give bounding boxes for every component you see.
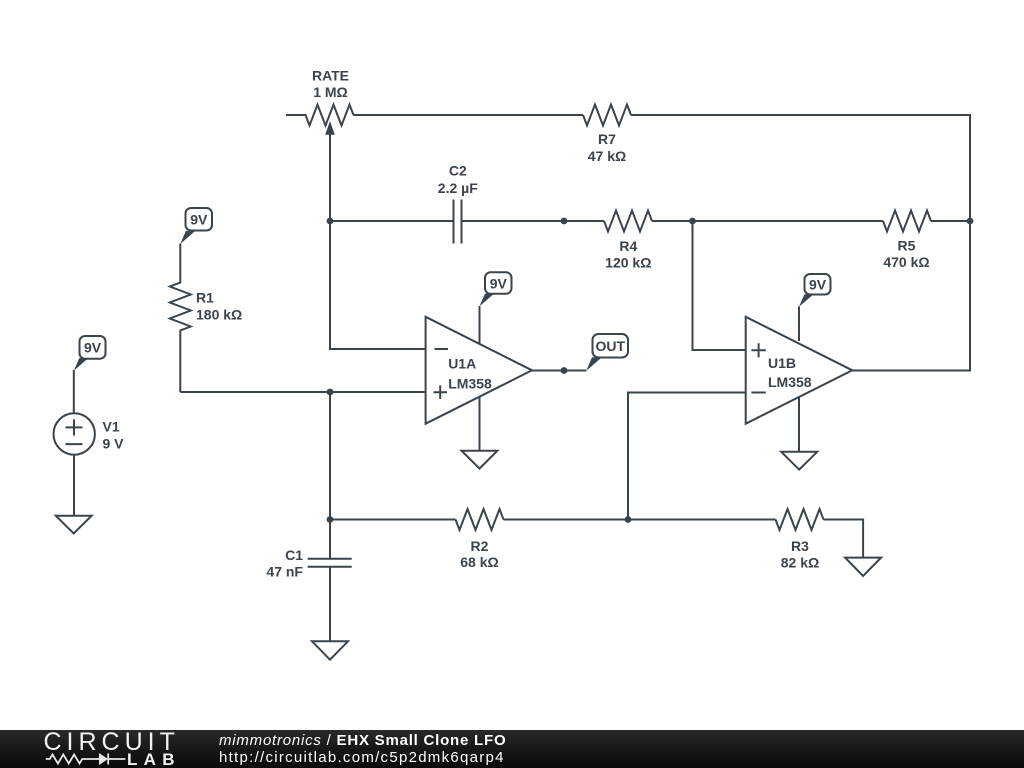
svg-text:R1: R1 (196, 290, 214, 306)
9V net flag V1 top (74, 336, 106, 371)
junction dot output node (561, 218, 568, 225)
svg-text:LM358: LM358 (768, 374, 812, 390)
svg-text:LAB: LAB (127, 750, 181, 768)
resistor R7 (583, 105, 631, 126)
wire C2 to R4 (462, 220, 605, 222)
junction dot U1A output (561, 367, 568, 374)
junction dot right rail (967, 218, 974, 225)
wire U1A output (532, 370, 586, 372)
svg-text:82 kΩ: 82 kΩ (781, 555, 819, 571)
svg-text:U1A: U1A (448, 356, 476, 372)
junction dot node B (689, 218, 696, 225)
net flag OUT (586, 334, 628, 371)
svg-text:9V: 9V (190, 212, 208, 228)
svg-text:C2: C2 (449, 163, 467, 179)
wire R5 to right rail (931, 220, 970, 222)
svg-text:V1: V1 (103, 419, 120, 435)
wire top rail right (631, 115, 970, 221)
wire R4 to node B (652, 220, 693, 222)
svg-text:120 kΩ: 120 kΩ (605, 255, 651, 271)
ground U1A (462, 397, 498, 469)
svg-text:U1B: U1B (768, 355, 796, 371)
wire V1 bottom (73, 455, 75, 516)
svg-text:R4: R4 (619, 238, 637, 254)
junction dot bottom mid node (625, 516, 632, 523)
wire bottom rail left (330, 519, 456, 521)
wire mid node to R3 (628, 519, 776, 521)
wire U1B minus input (628, 393, 746, 520)
potentiometer RATE (286, 105, 354, 135)
svg-text:9V: 9V (809, 277, 827, 293)
svg-text:9V: 9V (84, 340, 102, 356)
wire node B to U1B plus input (693, 221, 746, 350)
svg-text:R5: R5 (898, 238, 916, 254)
resistor R1 (170, 244, 191, 393)
junction dot plus input node (327, 389, 334, 396)
op-amp U1B (746, 317, 853, 424)
svg-text:1 MΩ: 1 MΩ (313, 84, 348, 100)
footer title text (219, 732, 506, 749)
wire node B to R5 (693, 220, 884, 222)
svg-text:R2: R2 (471, 538, 489, 554)
ground U1B (781, 397, 817, 470)
resistor R2 (456, 509, 504, 530)
wire wiper to U1A minus input (330, 134, 426, 349)
svg-text:C1: C1 (285, 547, 303, 563)
footer bar (0, 730, 1024, 768)
wire node A to C2 (330, 220, 454, 222)
svg-text:9 V: 9 V (103, 436, 125, 452)
wire R1 to U1A plus input (180, 391, 425, 393)
ground C1 (312, 641, 348, 659)
svg-text:LM358: LM358 (448, 376, 492, 392)
capacitor C1 (308, 520, 352, 642)
wire plus node down to bottom rail (329, 392, 331, 520)
resistor R3 (776, 509, 824, 530)
9V net flag U1A supply (480, 272, 512, 344)
svg-text:180 kΩ: 180 kΩ (196, 307, 242, 323)
svg-text:68 kΩ: 68 kΩ (460, 554, 498, 570)
resistor R4 (604, 211, 652, 232)
op-amp U1A (426, 317, 532, 424)
wire top rail left (354, 114, 584, 116)
svg-text:RATE: RATE (312, 68, 349, 84)
CircuitLab logo (0, 730, 215, 768)
svg-text:R7: R7 (598, 131, 616, 147)
svg-text:2.2 µF: 2.2 µF (438, 180, 478, 196)
svg-text:R3: R3 (791, 538, 809, 554)
capacitor C2 (454, 200, 462, 244)
9V net flag R1 top (180, 208, 212, 244)
junction dot node A (327, 218, 334, 225)
resistor R5 (883, 211, 931, 232)
svg-text:470 kΩ: 470 kΩ (883, 254, 929, 270)
voltage source V1 (53, 413, 94, 454)
ground R3 (845, 558, 881, 576)
wire R3 to ground (824, 520, 864, 558)
ground V1 (56, 516, 92, 534)
wire U1B output to right rail (852, 221, 970, 371)
wire R2 to mid node (504, 519, 629, 521)
svg-text:9V: 9V (490, 276, 508, 292)
svg-text:47 nF: 47 nF (266, 563, 303, 579)
wire V1 top (73, 370, 75, 413)
svg-text:47 kΩ: 47 kΩ (588, 148, 626, 164)
junction dot bottom left node (327, 516, 334, 523)
svg-text:OUT: OUT (596, 338, 626, 354)
9V net flag U1B supply (799, 274, 831, 341)
